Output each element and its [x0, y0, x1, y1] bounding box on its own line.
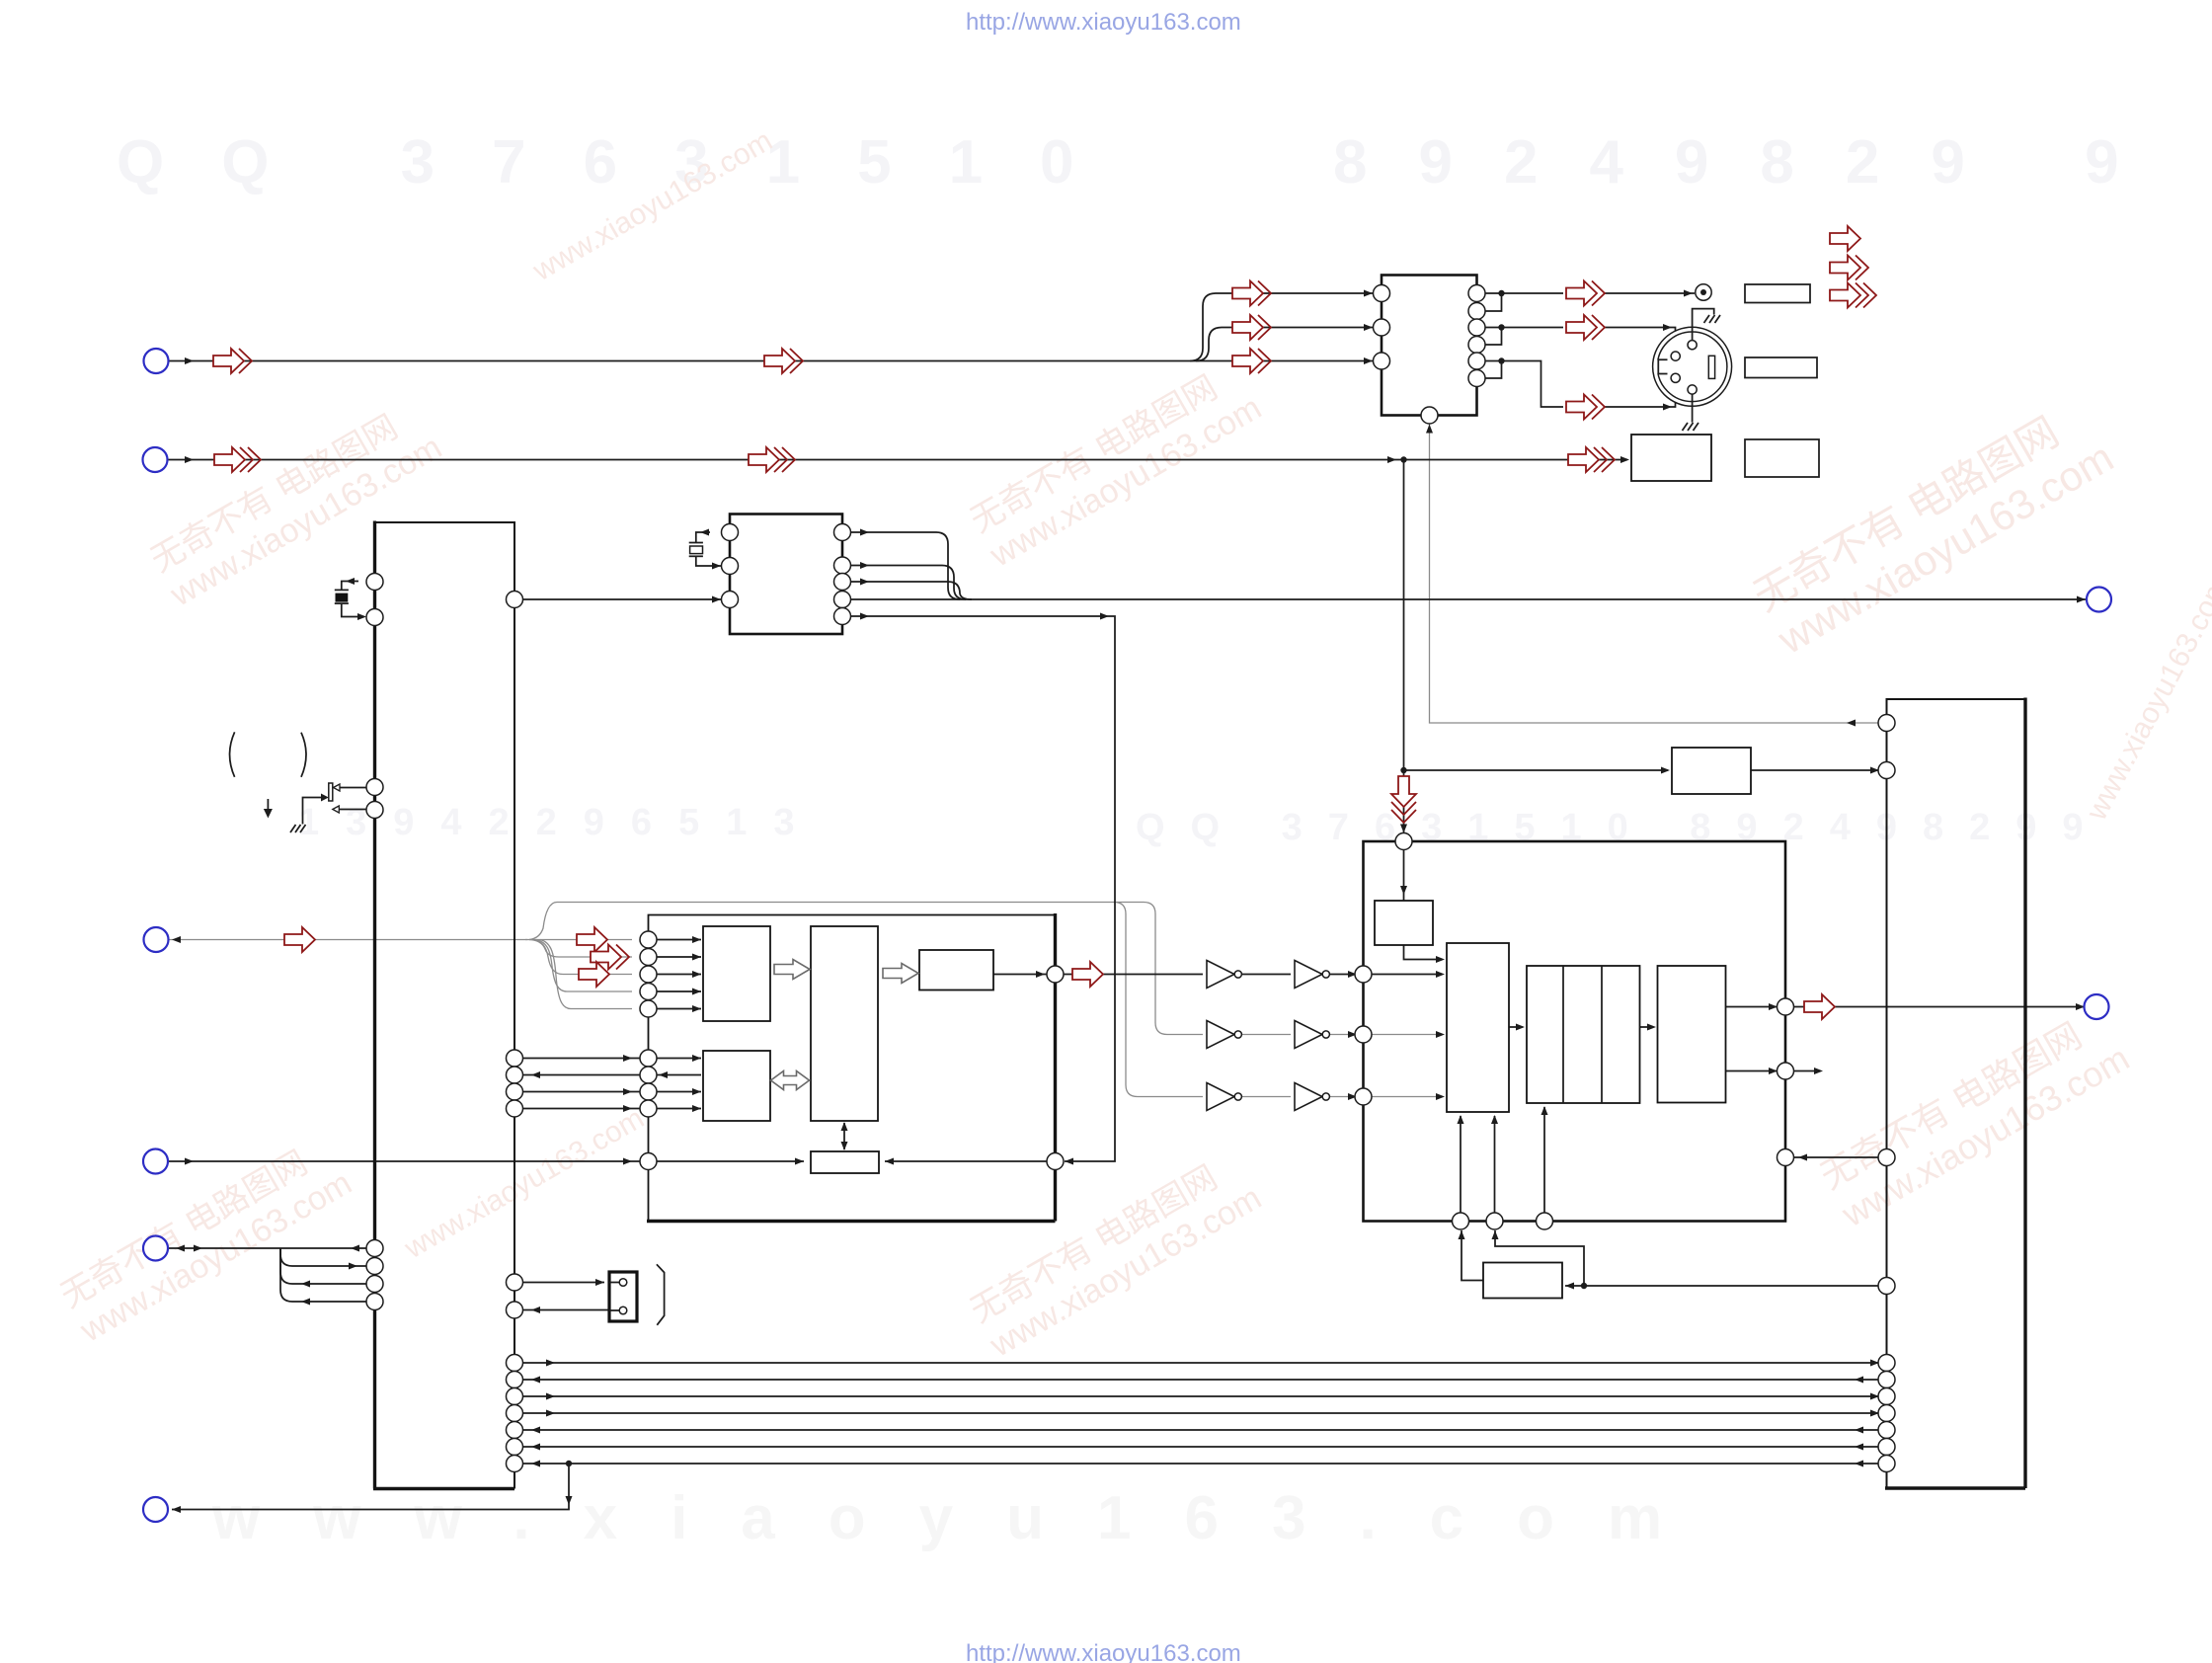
label box B2 (right of S-video) — [1745, 357, 1817, 378]
IR remote sensor Q1 at IC1 — [303, 783, 367, 825]
gray block arrow B double-headed — [771, 1071, 810, 1090]
wire inverter row1 chain (y=986.5) — [993, 971, 1445, 978]
IC6 left edge pin (reset) — [1878, 1278, 1895, 1295]
svg-text:http://www.xiaoyu163.com: http://www.xiaoyu163.com — [966, 1640, 1241, 1663]
inverter G1A row1 — [1207, 961, 1241, 989]
terminal J1 — [144, 349, 169, 373]
red flow arrow single on inverter row1 input — [1072, 962, 1103, 987]
red flow arrow double on IC3 input row3 — [1232, 349, 1271, 373]
red flow arrow single floating top-right — [1830, 226, 1860, 251]
red flow arrow single on fan row1 — [577, 927, 607, 952]
watermark pink diagonal 8 — [527, 124, 778, 288]
IC4 left edge pins (bus) — [640, 1050, 657, 1117]
gray block arrow A to C — [774, 960, 810, 980]
RCA jack J-video — [1696, 284, 1711, 300]
label box B4 — [1745, 439, 1819, 477]
wire net C: IC1 pin to IC2 input (y=607) — [523, 596, 722, 603]
terminal J8 — [2085, 994, 2109, 1019]
red flow arrow double on net A mid — [764, 349, 803, 373]
inverter G2B row2 — [1295, 1021, 1329, 1049]
red flow arrow triple floating top-right — [1830, 283, 1876, 308]
wire bidirectional bundle terminal J5 to IC1 lower-left pins — [169, 1245, 367, 1306]
BLACKWIRES — [168, 290, 2086, 1514]
wire IC5 top pin through sync block into mux — [1400, 850, 1445, 964]
red flow arrow single on fan row3 — [579, 962, 609, 987]
IC U5 shift register (3 columns) — [1527, 966, 1640, 1103]
watermark pink diagonal 7 — [399, 1102, 650, 1266]
wire net D: IC2 outputs merged bus to terminal J7 (y=607) — [851, 529, 2087, 603]
inverter G1B row1 — [1295, 961, 1329, 989]
wire S-video pin1 to ground G1 — [1693, 309, 1714, 341]
red flow arrow double on IC3 input row1 — [1232, 281, 1271, 306]
red flow arrow triple on net B before TO-MECHA — [1568, 447, 1615, 472]
block TO-MECHA (thick label box) — [1631, 435, 1711, 481]
wire IC6 pin to IC5 right pin (y=1172) — [1794, 1154, 1880, 1161]
watermark pink diagonal 3 — [1745, 391, 2121, 664]
IC U4 sub-block A input latch — [703, 926, 770, 1021]
red flow arrow triple downward into IC5 top pin — [1391, 776, 1416, 823]
red flow arrow single on IC5 output — [1804, 994, 1835, 1019]
watermark pink diagonal 1 — [144, 394, 448, 614]
IC4 left edge pin (y=1176) — [640, 1153, 657, 1170]
wire branch bus bit7 to terminal J6 — [172, 1461, 573, 1513]
wire IC4 internal vertical between RAM and E block (double arrow) — [841, 1122, 848, 1150]
crystal X1 (filled) at IC1 — [335, 578, 366, 620]
wire net VIDEO-IN fan from terminal J3 to IC4 pins — [169, 903, 1203, 1097]
IC U4 sub-block C core (tall) — [811, 926, 878, 1121]
IC1 left edge pins (IR sensor) — [366, 779, 383, 819]
IC5 right edge pins — [1777, 998, 1794, 1166]
terminal J6 — [143, 1497, 168, 1522]
svg-text:QQ 37631510: QQ 37631510 — [117, 128, 1132, 197]
IC3 left edge pins — [1374, 285, 1390, 370]
terminal J5 — [143, 1236, 168, 1261]
IC U4 digital signal processor (middle block) — [647, 913, 1056, 1222]
wire IC5 bottom pin stubs up into blocks — [1458, 1106, 1548, 1214]
ceramic resonator X2 at IC2 — [689, 529, 721, 570]
ground G1 — [1704, 315, 1721, 323]
wire rows from IC4 left pins into sub-block A — [657, 936, 701, 1012]
IC U1 system controller (tall left block) — [373, 521, 514, 1489]
IC U3 video encoder (top right) — [1382, 276, 1477, 416]
block reset generator (bottom feedback) — [1483, 1263, 1562, 1299]
watermark pink right edge — [2080, 572, 2212, 827]
gray block arrow C to D — [883, 964, 918, 984]
wire net E: IC2 pin5 down to IC4 right pin (y=624 / x=1129 / y=1176) — [851, 613, 1116, 1165]
red flow arrow single on net J3 input — [284, 927, 315, 952]
IC U4 sub-block D output stage — [919, 950, 993, 990]
IC1 right edge pins (7-bit bus) — [507, 1355, 523, 1472]
wire gray inverter row2 output segments — [1242, 1034, 1443, 1036]
red flow arrow double before S-video Y pin — [1566, 315, 1605, 340]
wire gray inverter row3 output segments — [1242, 1096, 1443, 1098]
IC1 right edge pins (to CN2) — [507, 1274, 523, 1318]
IC1 left edge pins (crystal) — [366, 574, 383, 626]
REDARROWS — [213, 226, 1876, 1019]
wire pair IC1 to 2-pin connector CN2 — [523, 1279, 610, 1313]
GRAYWIRES — [169, 424, 1878, 1097]
IC3 bottom pin — [1421, 407, 1438, 424]
terminal J3 — [144, 927, 169, 952]
PINS — [143, 285, 2112, 1523]
label box B1 (right of RCA) — [1745, 284, 1810, 303]
IC U4 sub-block E timing — [811, 1151, 879, 1173]
wire IC5 output1 to terminal J8 (y=1019.5) — [1726, 1003, 2086, 1010]
red flow arrow double on net A near J1 — [213, 349, 252, 373]
IC U5 video DAC block (big right) — [1364, 841, 1786, 1222]
watermark pink diagonal 2 — [964, 355, 1268, 575]
red flow arrow double on IC3 input row2 — [1232, 315, 1271, 340]
IC6 left edge pins (7-bit bus) — [1878, 1355, 1895, 1472]
IC4 right edge pins — [1047, 966, 1064, 1170]
IC6 left edge pin (y=1172) — [1878, 1149, 1895, 1166]
wire S-video pin4 to ground G2 — [1692, 394, 1694, 423]
wire net F: terminal J4 to IC4 (y=1176) and inner link to sub-block E — [168, 1158, 1047, 1165]
IC6 left edge pins (top pair) — [1878, 715, 1895, 779]
wire feedback net IC6 to reset block and IC5 bottom pins — [1459, 1230, 1879, 1290]
wire IC5 output2 stub (y=1084.5) — [1726, 1068, 1824, 1074]
IC U6 memory / interface (tall right block) — [1885, 698, 2025, 1489]
svg-text:www.xiaoyu163.com: www.xiaoyu163.com — [211, 1484, 1715, 1552]
wire arrows into IC5 mux from inverter rows 2,3 — [1348, 1031, 1445, 1100]
red flow arrow double on fan row2 — [591, 945, 629, 970]
IC U4 sub-block B bus interface — [703, 1051, 770, 1121]
IC4 left edge pins (upper five) — [640, 931, 657, 1017]
IC5 top pin — [1395, 833, 1412, 850]
red flow arrow double floating top-right — [1830, 256, 1868, 280]
watermark pink diagonal 5 — [964, 1145, 1268, 1365]
IC U2 servo IC (top middle, with resonator) — [730, 515, 842, 635]
block R1 delay cell — [1672, 748, 1751, 794]
wire 7-bit bus IC1 to IC6 — [523, 1360, 1880, 1467]
connector CN2 2-pin — [609, 1272, 637, 1321]
IR beam marks (parentheses and arrow) — [230, 732, 306, 818]
wire net IC3 pin7 to IC6 pin1 (gray return line) — [1430, 424, 1879, 727]
red flow arrow triple on net B near J2 — [214, 447, 261, 472]
terminal J7 — [2087, 588, 2111, 612]
ground G3 at IR sensor — [290, 825, 306, 832]
ground G2 — [1683, 423, 1699, 431]
bracket right of CN2 — [657, 1264, 665, 1325]
wire net B: terminal J2 (y=466) to block TO-MECHA with vertical branches — [168, 425, 1879, 833]
S-video mini-DIN connector CN1 — [1653, 327, 1732, 406]
IC U5 sync separator small box — [1375, 901, 1433, 945]
IC2 right edge pins — [834, 524, 851, 625]
IC U5 mux (tall inner) — [1447, 943, 1509, 1112]
IC2 left edge pins — [722, 524, 739, 608]
svg-text:89249829 9: 89249829 9 — [1333, 128, 2171, 197]
terminal J4 — [143, 1149, 168, 1174]
IC1 right edge pins (4-bit bus) — [507, 1050, 523, 1117]
inverter G3A row3 — [1207, 1083, 1241, 1111]
wire net A: terminal J1 to IC3 inputs (y=365) with fan-up branches — [169, 290, 1373, 365]
red flow arrow triple on net B mid — [749, 447, 795, 472]
IC U5 output driver — [1658, 966, 1726, 1103]
IC1 right edge pin (to IC2) — [507, 592, 523, 608]
inverter G2A row2 — [1207, 1021, 1241, 1049]
svg-text:http://www.xiaoyu163.com: http://www.xiaoyu163.com — [966, 9, 1241, 36]
wire IC3 right pin nets to RCA and S-video — [1485, 290, 1695, 411]
IC3 right edge pins — [1468, 285, 1485, 387]
red flow arrow double before S-video C pin — [1566, 395, 1605, 420]
IC5 left edge pins (inverter rows) — [1355, 966, 1372, 1105]
BLOCKS — [373, 276, 2025, 1489]
wire 4-bit bus IC1 to IC4 sub-block B — [523, 1055, 702, 1112]
inverter G3B row3 — [1295, 1083, 1329, 1111]
terminal J2 — [143, 447, 168, 472]
watermark pink diagonal 4 — [53, 1130, 357, 1350]
IC5 bottom pins — [1453, 1213, 1553, 1229]
watermark pink diagonal 6 — [1812, 999, 2136, 1234]
wire IC5 internal: mux to shift-register to output block — [1509, 1024, 1656, 1031]
red flow arrow double before RCA jack — [1566, 281, 1605, 306]
IC1 left edge pins (key bundle) — [366, 1240, 383, 1310]
